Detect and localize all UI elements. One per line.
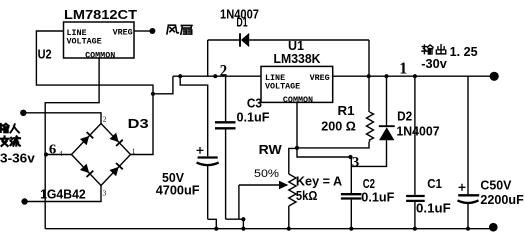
svg-text:0.1uF: 0.1uF <box>361 190 394 205</box>
diode bridge top-right <box>109 133 122 146</box>
capacitor C1 <box>406 76 425 229</box>
出 <box>436 45 445 54</box>
wire junction to node2 rail <box>153 76 173 94</box>
capacitor 4700uF electrolytic <box>197 147 219 229</box>
svg-text:0.1uF: 0.1uF <box>237 109 270 124</box>
junction bridge minus <box>44 152 48 156</box>
label 交流 (AC) <box>0 136 20 146</box>
交 <box>0 136 8 146</box>
potentiometer RW <box>289 148 297 228</box>
svg-text:COMMON: COMMON <box>283 95 313 105</box>
label 输出1.25 <box>422 45 446 54</box>
diode bridge bottom-right <box>109 163 122 176</box>
svg-text:C3: C3 <box>247 95 262 110</box>
junction <box>213 74 217 78</box>
diode bridge bottom-left <box>80 164 93 177</box>
capacitor C3 <box>215 76 243 219</box>
wire to rail <box>242 219 244 229</box>
junction C50V bottom <box>466 227 470 231</box>
输 <box>422 45 433 54</box>
svg-text:-30v: -30v <box>421 56 447 71</box>
svg-text:Key = A: Key = A <box>296 173 343 188</box>
svg-text:COMMON: COMMON <box>85 50 115 60</box>
junction C1 top <box>413 74 417 78</box>
svg-text:1G4B42: 1G4B42 <box>40 187 86 202</box>
svg-text:2: 2 <box>103 114 107 123</box>
svg-text:2200uF: 2200uF <box>480 192 523 207</box>
diode bridge top-left <box>80 132 93 145</box>
op-amp U1 regulator LM338K box <box>261 38 333 105</box>
wire bridge pin4 to ground line <box>46 154 72 156</box>
op-amp U2 regulator LM7812CT box <box>38 7 137 62</box>
wire U2 COMMON to ground rail <box>45 58 99 229</box>
junction C2 bottom <box>349 227 353 231</box>
junction ADJ <box>295 146 299 150</box>
风 <box>167 25 179 34</box>
svg-text:0.1uF: 0.1uF <box>416 201 451 216</box>
svg-text:RW: RW <box>259 142 283 157</box>
svg-text:5kΩ: 5kΩ <box>296 188 317 203</box>
wire output rail node 1 <box>333 75 490 77</box>
junction <box>178 74 182 78</box>
label 输入 (input) <box>0 124 19 133</box>
svg-text:R1: R1 <box>338 103 355 118</box>
svg-text:LM338K: LM338K <box>274 51 322 66</box>
wire step to filter cap <box>180 76 208 156</box>
junction node3 C2 <box>348 155 352 159</box>
diode D1 1N4007 <box>208 33 369 76</box>
svg-text:3: 3 <box>103 188 107 197</box>
svg-text:C50V: C50V <box>480 178 511 193</box>
capacitor C2 <box>341 157 362 229</box>
junction <box>214 227 218 231</box>
扇 <box>181 25 192 34</box>
junction <box>241 227 245 231</box>
svg-text:200 Ω: 200 Ω <box>321 119 356 134</box>
svg-text:C1: C1 <box>427 176 442 191</box>
svg-text:VOLTAGE: VOLTAGE <box>67 36 102 46</box>
terminal input AC top <box>20 110 26 116</box>
junction pot bottom <box>287 227 291 231</box>
svg-text:VOLTAGE: VOLTAGE <box>265 81 300 91</box>
wiper arrow RW <box>239 181 288 219</box>
wire U2 VREG to fan terminal <box>134 30 150 32</box>
wire bridge pin1 to node 2 <box>131 94 154 155</box>
wire node2 rail <box>173 75 261 77</box>
svg-text:50%: 50% <box>254 168 279 180</box>
junction <box>241 217 245 221</box>
入 <box>10 124 19 132</box>
capacitor C50V electrolytic <box>458 76 480 229</box>
terminal fan <box>149 28 155 34</box>
label 风扇 (fan) <box>167 25 192 34</box>
resistor R1 <box>367 76 374 142</box>
svg-text:3-36v: 3-36v <box>0 151 36 166</box>
wire input bottom to bridge pin3 <box>25 186 101 202</box>
terminal output plus <box>490 72 499 81</box>
terminal input AC bottom <box>21 198 27 204</box>
terminal output minus <box>489 223 498 232</box>
svg-text:4700uF: 4700uF <box>156 182 200 197</box>
wire input top to bridge pin2 <box>23 113 101 124</box>
svg-text:1N4007: 1N4007 <box>396 124 439 139</box>
svg-text:D1: D1 <box>236 14 247 29</box>
svg-text:4: 4 <box>59 149 63 158</box>
junction R1 top <box>367 74 371 78</box>
diode D2 1N4007 <box>351 76 394 166</box>
svg-text:VREG: VREG <box>310 73 330 83</box>
junction D2 top <box>384 74 388 78</box>
junction node A <box>151 92 155 96</box>
junction C1 bottom <box>413 227 417 231</box>
svg-text:LM7812CT: LM7812CT <box>64 7 137 22</box>
wire U1 COMMON <box>297 102 351 157</box>
wire U2 input from bridge + <box>36 31 153 94</box>
svg-text:VREG: VREG <box>113 27 133 37</box>
svg-text:D2: D2 <box>397 109 412 124</box>
ground rail <box>45 228 491 230</box>
流 <box>10 136 20 145</box>
svg-text:D3: D3 <box>128 116 149 131</box>
svg-text:U2: U2 <box>38 47 52 62</box>
wire ADJ to R1 bottom <box>297 142 369 148</box>
svg-text:3: 3 <box>352 154 359 170</box>
bridge rectifier D3 diamond <box>72 124 131 186</box>
svg-text:1. 25: 1. 25 <box>450 44 478 59</box>
svg-text:1: 1 <box>399 59 407 78</box>
